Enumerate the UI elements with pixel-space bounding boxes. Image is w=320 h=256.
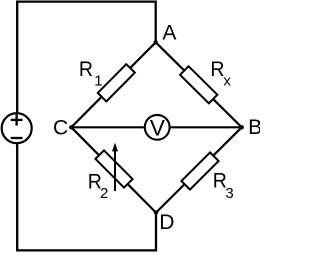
resistor R2 (variable): [88, 143, 133, 203]
svg-text:3: 3: [225, 185, 233, 202]
svg-text:2: 2: [100, 185, 108, 202]
wire outer loop (top, left, bottom): [17, 2, 156, 251]
node D: [154, 210, 175, 234]
resistor Rx: [180, 57, 231, 103]
svg-text:A: A: [162, 22, 176, 45]
svg-text:B: B: [248, 116, 260, 139]
wire arm C-D: [71, 127, 156, 212]
node A: [154, 22, 177, 45]
voltmeter V: [145, 115, 170, 140]
svg-text:x: x: [223, 73, 231, 90]
node B: [240, 116, 263, 139]
wire arm A-B: [156, 42, 242, 127]
svg-text:D: D: [159, 211, 174, 234]
wire arm A-C: [71, 42, 155, 127]
svg-text:C: C: [53, 116, 68, 139]
svg-text:V: V: [150, 115, 165, 140]
svg-text:1: 1: [94, 72, 102, 89]
svg-text:R: R: [210, 57, 224, 81]
node C: [53, 116, 74, 139]
resistor R1: [79, 57, 135, 101]
wire C-B (galvanometer branch): [71, 126, 241, 128]
voltage source: [2, 113, 32, 143]
wire arm D-B: [156, 127, 242, 212]
resistor R3: [181, 152, 233, 202]
svg-text:R: R: [79, 57, 93, 81]
